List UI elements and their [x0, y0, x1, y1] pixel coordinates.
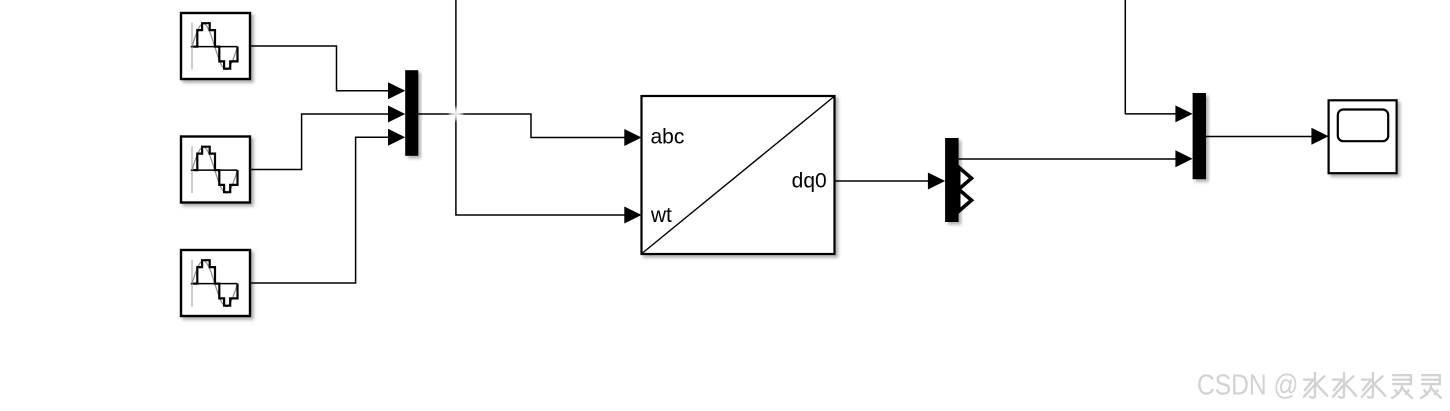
- shui 3: [1362, 373, 1385, 398]
- wire Mux1 to abc input: [418, 114, 641, 146]
- watermark glyphs shui shui shui ling ling white emboss: [1305, 374, 1442, 399]
- demux unconnected port 3: [959, 189, 972, 211]
- ling 1: [1392, 375, 1412, 398]
- wire B1 to Mux1 input 1: [250, 46, 405, 99]
- mux Mux1: [405, 70, 418, 156]
- shui 1: [1304, 373, 1327, 398]
- port label abc: [651, 126, 685, 149]
- svg-text:CSDN @: CSDN @: [1197, 369, 1299, 401]
- port label dq0: [792, 170, 827, 193]
- watermark glyphs shui shui shui ling ling: [1304, 373, 1441, 398]
- sine wave source B2: [181, 137, 250, 203]
- abc to dq0 transform block U1: [642, 96, 835, 254]
- wire Demux out1 to Mux2 input 2: [959, 150, 1193, 167]
- shui 2: [1333, 373, 1356, 398]
- sine wave source B3: [181, 250, 250, 316]
- scope block: [1329, 100, 1397, 173]
- demux D1: [945, 138, 959, 222]
- watermark CSDN: [1197, 369, 1300, 403]
- wire crossing halo: [447, 105, 465, 123]
- mux Mux2: [1193, 93, 1206, 179]
- wire Mux2 to Scope: [1206, 128, 1329, 145]
- demux unconnected port 2: [959, 167, 972, 189]
- wire top branch to Mux2 input 1: [1125, 0, 1192, 122]
- wire B3 to Mux1 input 3: [250, 129, 405, 283]
- wire dq0 to Demux: [835, 173, 946, 190]
- svg-text:wt: wt: [650, 204, 672, 227]
- sine wave source B1: [181, 13, 250, 79]
- port label wt: [650, 204, 672, 227]
- ling 2: [1421, 375, 1441, 398]
- svg-text:abc: abc: [651, 126, 685, 149]
- wire B2 to Mux1 input 2: [250, 106, 405, 170]
- wire wt branch to wt input: [456, 0, 642, 224]
- svg-text:dq0: dq0: [792, 170, 827, 193]
